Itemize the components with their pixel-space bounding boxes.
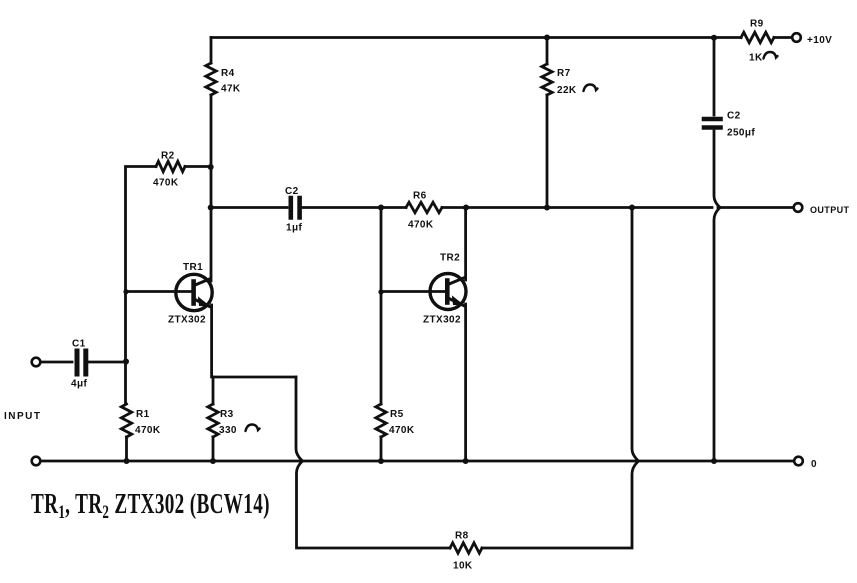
terminal +10V xyxy=(792,33,801,42)
resistor R4 xyxy=(206,63,216,95)
node C1 base junction xyxy=(123,359,129,365)
svg-text:R4: R4 xyxy=(221,68,235,79)
node R1 ground junction xyxy=(124,458,130,464)
svg-text:R8: R8 xyxy=(455,531,469,542)
svg-text:4μf: 4μf xyxy=(71,379,87,390)
svg-text:10K: 10K xyxy=(453,561,473,572)
svg-text:470K: 470K xyxy=(408,220,434,231)
capacitor C2 250uf xyxy=(704,119,721,128)
node R5 ground junction xyxy=(378,458,384,464)
wire TR1 emitter down to R3 node xyxy=(212,305,296,377)
wire R3 top lead xyxy=(212,377,215,404)
wire R7 branch vertical xyxy=(546,38,549,208)
resistor R3 xyxy=(208,404,218,437)
wire TR2 base branch vertical xyxy=(380,208,383,405)
node TR1 base junction xyxy=(123,289,128,294)
node R8 feedback junction xyxy=(629,205,635,211)
svg-text:TR1, TR2 ZTX302 (BCW14): TR1, TR2 ZTX302 (BCW14) xyxy=(31,490,270,523)
wire signal line TR1 collector to C2 xyxy=(211,206,287,209)
resistor R6 xyxy=(406,202,442,212)
terminal INPUT xyxy=(32,358,41,367)
ohm squiggle after 330 xyxy=(246,425,260,432)
terminal OUTPUT xyxy=(794,203,803,212)
node R7 bottom junction xyxy=(544,205,550,211)
wire feedback left drop with hop over ground rail xyxy=(296,377,450,548)
node R2-collector junction xyxy=(208,164,214,170)
svg-text:C2: C2 xyxy=(727,111,741,122)
svg-text:C1: C1 xyxy=(72,339,86,350)
resistor R5 xyxy=(376,404,386,437)
svg-text:47K: 47K xyxy=(221,84,241,95)
capacitor C1 4uf xyxy=(77,351,86,374)
wire C2 250uf bottom lead with hop over output line xyxy=(714,131,720,461)
node R3 ground junction xyxy=(210,458,216,464)
resistor R9 xyxy=(741,32,774,42)
svg-text:R5: R5 xyxy=(390,409,404,420)
wire C1 input lead xyxy=(41,361,73,364)
svg-text:ZTX302: ZTX302 xyxy=(423,315,461,326)
svg-text:R9: R9 xyxy=(750,19,764,30)
resistor R2 xyxy=(156,161,185,171)
wire R1 bottom lead xyxy=(125,437,128,461)
svg-text:ZTX302: ZTX302 xyxy=(168,315,206,326)
wire output line right of hop to terminal xyxy=(718,206,793,209)
svg-text:TR2: TR2 xyxy=(440,253,460,264)
wire R9 to +10V terminal xyxy=(774,36,792,39)
wire C2 250uf top lead xyxy=(713,38,716,116)
svg-text:R7: R7 xyxy=(557,68,571,79)
wire TR2 emitter lead down xyxy=(464,304,467,461)
svg-text:R1: R1 xyxy=(136,409,150,420)
svg-text:250μf: 250μf xyxy=(727,128,755,139)
svg-text:INPUT: INPUT xyxy=(4,411,42,422)
svg-text:330: 330 xyxy=(219,425,237,436)
svg-text:+10V: +10V xyxy=(807,35,832,46)
svg-text:OUTPUT: OUTPUT xyxy=(810,205,850,215)
node C2 supply junction xyxy=(711,35,717,41)
node collector-signal junction xyxy=(208,205,214,211)
svg-text:R3: R3 xyxy=(220,409,234,420)
svg-text:TR1: TR1 xyxy=(183,262,203,273)
transistor TR2 xyxy=(430,274,466,310)
svg-text:1μf: 1μf xyxy=(286,223,302,234)
node R7 top junction xyxy=(544,35,550,41)
svg-text:1K: 1K xyxy=(749,53,763,64)
resistor R7 xyxy=(542,64,552,95)
node TR2 base junction xyxy=(378,289,383,294)
svg-text:C2: C2 xyxy=(285,186,299,197)
wire top supply rail xyxy=(211,36,741,39)
wire R2 branch xyxy=(126,167,157,405)
svg-text:R2: R2 xyxy=(161,151,175,162)
wire R8 right lead up to output with hop over ground rail xyxy=(482,208,639,548)
resistor R1 xyxy=(121,404,131,437)
wire TR2 base lead xyxy=(381,290,446,293)
node TR2 base branch junction xyxy=(378,205,384,211)
node TR2 emitter ground junction xyxy=(463,458,469,464)
svg-text:0: 0 xyxy=(811,459,817,470)
resistor R8 xyxy=(450,543,482,553)
transistor TR1 xyxy=(176,274,212,310)
svg-text:470K: 470K xyxy=(153,178,179,189)
wire TR1 base lead xyxy=(126,290,193,293)
wire ground rail xyxy=(41,460,795,463)
node TR2 collector junction xyxy=(463,205,469,211)
capacitor C2 1uf xyxy=(291,198,300,218)
wire R3 bottom lead xyxy=(212,437,215,461)
svg-text:470K: 470K xyxy=(389,425,415,436)
svg-text:22K: 22K xyxy=(557,85,577,96)
wire left vertical branch R4/TR1 collector column xyxy=(210,38,213,282)
ohm squiggle after 1K xyxy=(764,52,778,59)
wire TR2 collector lead up xyxy=(464,208,467,281)
wire C2 to TR2 base node xyxy=(302,206,406,209)
terminal ground left xyxy=(32,457,41,466)
terminal ground right xyxy=(794,457,803,466)
ohm squiggle after 22K xyxy=(584,85,598,92)
node C2 ground junction xyxy=(711,458,717,464)
wire R2 right lead xyxy=(185,165,211,168)
wire R5 bottom lead xyxy=(380,437,383,461)
wire R6 to output line xyxy=(442,206,712,209)
wire C1 to base node xyxy=(89,361,127,364)
svg-text:R6: R6 xyxy=(413,191,427,202)
svg-text:470K: 470K xyxy=(135,425,161,436)
